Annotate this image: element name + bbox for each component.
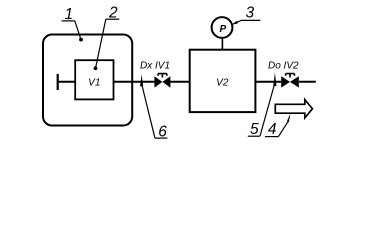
flow arrow (outlet) <box>275 100 312 118</box>
valve IV1 <box>154 74 170 88</box>
vessel V1 <box>75 60 113 99</box>
callout 2 <box>94 5 120 71</box>
vessel V2 <box>190 50 256 112</box>
svg-text:V2: V2 <box>216 77 229 88</box>
label V2 <box>216 77 229 88</box>
junction tick (leader 6 arrowhead) <box>140 74 143 86</box>
svg-text:3: 3 <box>246 5 255 22</box>
callout 4 <box>265 113 291 138</box>
pipe cap (blind flange) <box>57 74 59 90</box>
valve IV2 <box>281 74 299 88</box>
wire: valve IV1 to V2 <box>170 81 189 83</box>
wire: valve IV2 to outlet <box>299 81 316 83</box>
svg-text:Do IV2: Do IV2 <box>268 60 299 71</box>
junction tick (leader 5 arrowhead) <box>273 73 276 86</box>
wire: V1 to valve IV1 <box>114 81 155 83</box>
enclosure 1 (rounded rectangle) <box>43 35 132 126</box>
svg-text:4: 4 <box>268 121 277 138</box>
pressure gauge P <box>212 17 233 38</box>
svg-text:Dx IV1: Dx IV1 <box>140 61 170 72</box>
svg-text:5: 5 <box>250 121 259 138</box>
callout 6 <box>142 85 168 141</box>
svg-text:6: 6 <box>158 123 167 140</box>
svg-text:P: P <box>219 24 226 35</box>
svg-text:V1: V1 <box>88 77 100 88</box>
wire: V2 to valve IV2 <box>255 81 281 83</box>
label V1 <box>88 77 100 88</box>
label Dx IV1 <box>140 61 170 72</box>
callout 5 <box>248 85 274 138</box>
gauge stem <box>221 38 223 50</box>
callout 1 <box>62 6 83 42</box>
callout 3 <box>231 5 260 26</box>
label Do IV2 <box>268 60 299 71</box>
wire: pipe cap to V1 <box>58 81 75 83</box>
